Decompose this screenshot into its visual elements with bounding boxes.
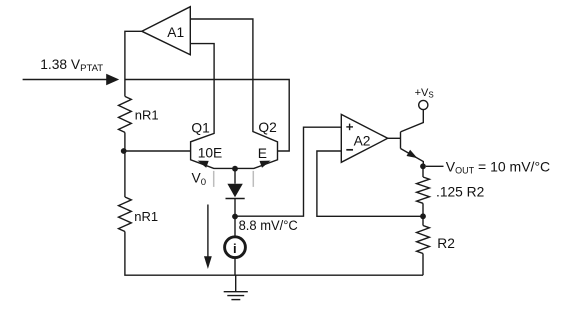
svg-text:.125 R2: .125 R2 [436,185,484,200]
svg-text:Q1: Q1 [191,120,209,135]
svg-text:E: E [258,146,267,161]
svg-text:8.8 mV/°C: 8.8 mV/°C [239,218,299,233]
svg-text:Q2: Q2 [258,120,276,135]
svg-text:A1: A1 [167,25,184,40]
svg-text:i: i [233,241,237,256]
svg-text:nR1: nR1 [134,209,158,224]
svg-text:A2: A2 [354,133,371,148]
svg-text:10E: 10E [198,146,223,161]
svg-text:R2: R2 [437,236,455,251]
svg-text:nR1: nR1 [135,108,159,123]
